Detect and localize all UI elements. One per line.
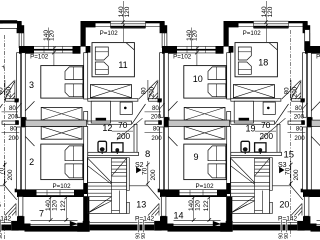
svg-text:13: 13: [136, 199, 146, 209]
svg-text:15: 15: [284, 150, 295, 161]
svg-text:6: 6: [0, 199, 1, 209]
window right end wall: [305, 30, 310, 42]
unit tiles: [0, 1, 23, 232]
svg-text:7: 7: [39, 208, 44, 218]
svg-text:18: 18: [258, 57, 268, 67]
boundary line right: [289, 30, 291, 238]
svg-text:20: 20: [279, 199, 289, 209]
svg-text:10: 10: [193, 74, 203, 84]
svg-text:+: +: [1, 65, 5, 71]
svg-text:9: 9: [193, 152, 198, 162]
svg-text:8: 8: [145, 149, 150, 160]
right end wall lower: [304, 42, 310, 51]
svg-text:3: 3: [29, 80, 34, 90]
boundary line left: [3, 35, 5, 240]
svg-text:2: 2: [29, 157, 34, 167]
svg-text:14: 14: [173, 211, 183, 221]
svg-text:12: 12: [102, 123, 112, 133]
svg-text:11: 11: [118, 60, 127, 70]
end wall patch top: [0, 20, 17, 23]
thin line left corner: [0, 27, 17, 29]
svg-text:19: 19: [245, 124, 255, 134]
